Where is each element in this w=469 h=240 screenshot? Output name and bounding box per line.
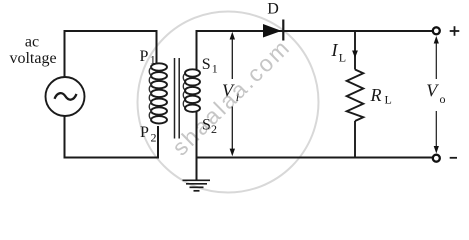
svg-text:2: 2 [211, 122, 217, 136]
svg-text:S: S [202, 116, 211, 133]
svg-text:L: L [339, 51, 346, 65]
svg-text:P: P [140, 124, 149, 141]
svg-text:voltage: voltage [9, 50, 56, 67]
svg-text:I: I [331, 40, 339, 60]
svg-text:ac: ac [25, 33, 39, 50]
svg-text:P: P [140, 48, 149, 65]
svg-text:1: 1 [212, 61, 218, 75]
svg-text:L: L [385, 93, 392, 107]
svg-text:R: R [370, 85, 382, 105]
svg-text:1: 1 [150, 53, 156, 67]
svg-text:V: V [426, 81, 439, 101]
svg-text:o: o [440, 92, 446, 106]
svg-text:i: i [236, 90, 239, 104]
svg-text:D: D [267, 0, 279, 17]
svg-text:S: S [202, 56, 211, 73]
svg-text:2: 2 [151, 131, 157, 145]
